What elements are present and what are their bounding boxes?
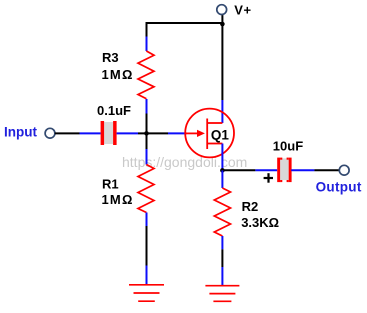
transistor Q1 source stub — [207, 143, 222, 145]
label C1 value 0.1uF — [97, 103, 131, 118]
wire through gate junction (black) — [138, 132, 168, 134]
wire ground lead right (blue) — [221, 267, 223, 286]
label R2 value 3.3KΩ — [241, 215, 279, 230]
transistor Q1 gate bar — [206, 119, 208, 150]
wire output (blue segment to C2) — [255, 169, 277, 171]
terminal Output — [339, 165, 349, 175]
svg-text:V+: V+ — [234, 2, 251, 17]
label V+ — [234, 2, 251, 17]
svg-text:R2: R2 — [242, 199, 259, 214]
wire R1 bottom (blue) — [146, 213, 148, 227]
wire top rail (node V+) — [147, 22, 223, 24]
wire C1 to junction (blue) — [117, 132, 138, 134]
svg-text:R1: R1 — [102, 177, 119, 192]
label C2 polarity + — [264, 173, 273, 183]
wire R1 top (blue) — [146, 149, 148, 165]
resistor R1 — [138, 165, 154, 213]
wire R1 to ground (black) — [146, 226, 148, 266]
terminal V+ — [217, 5, 227, 15]
wire R2 bottom (blue) — [221, 236, 223, 249]
junction at top rail — [220, 22, 225, 27]
transistor Q1 drain stub — [207, 122, 222, 124]
label R1 value 1MΩ — [102, 192, 134, 207]
ground (left, under R1) — [129, 285, 164, 301]
ground (right, under R2) — [205, 286, 239, 302]
wire R2 top (blue) — [221, 170, 223, 188]
svg-text:R3: R3 — [102, 50, 119, 65]
capacitor C1 0.1uF — [101, 121, 117, 145]
svg-text:1MΩ: 1MΩ — [102, 67, 134, 82]
resistor R3 — [138, 51, 154, 99]
label R1 — [102, 177, 119, 192]
wire V+ terminal stub — [221, 14, 223, 24]
svg-text:1MΩ: 1MΩ — [102, 192, 134, 207]
label Output — [316, 179, 362, 194]
capacitor C2 10uF (polarized) — [277, 158, 291, 183]
wire drain (black segment) — [221, 24, 223, 100]
transistor Q1 gate lead with arrow — [186, 130, 205, 137]
transistor Q1 body circle — [185, 109, 234, 158]
label Input — [4, 124, 37, 139]
wire C2 to output (blue) — [291, 169, 314, 171]
label R2 — [242, 199, 259, 214]
wire R2 to ground (black) — [221, 249, 223, 267]
wire input (black segment) — [55, 132, 80, 134]
wire to gate (blue) — [168, 132, 187, 134]
wire input (blue segment to C1) — [80, 132, 101, 134]
label R3 value 1MΩ — [102, 67, 134, 82]
svg-text:10uF: 10uF — [273, 139, 303, 154]
wire to output terminal (black) — [314, 169, 339, 171]
label Q1 — [209, 126, 230, 143]
junction at gate node — [144, 131, 149, 136]
label C2 value 10uF — [273, 139, 303, 154]
svg-text:Output: Output — [316, 179, 362, 194]
svg-text:3.3KΩ: 3.3KΩ — [241, 215, 279, 230]
wire R3 top corner (black) — [146, 22, 148, 37]
wire source down (blue) — [221, 144, 223, 171]
wire R3 bottom (black, to gate junction) — [146, 114, 148, 150]
wire ground lead left (blue) — [146, 266, 148, 286]
watermark https://gongdoli.com — [122, 154, 247, 170]
wire R3 top (blue) — [146, 37, 148, 52]
wire drain (blue segment) — [221, 100, 223, 123]
resistor R2 — [214, 188, 230, 236]
svg-text:Input: Input — [4, 124, 37, 139]
terminal Input — [45, 128, 55, 138]
wire R3 bottom (blue) — [146, 99, 148, 114]
junction at output node — [220, 168, 225, 173]
svg-text:https://gongdoli.com: https://gongdoli.com — [122, 154, 247, 170]
wire output (black segment) — [222, 169, 255, 171]
svg-text:0.1uF: 0.1uF — [97, 103, 131, 118]
svg-text:Q1: Q1 — [211, 128, 230, 143]
label R3 — [102, 50, 119, 65]
